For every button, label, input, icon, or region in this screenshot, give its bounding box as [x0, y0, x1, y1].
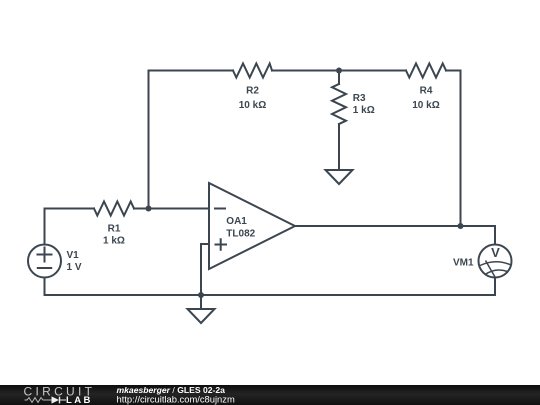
wire R3 top lead [338, 71, 340, 85]
svg-text:V: V [491, 245, 500, 260]
footer bar [0, 385, 540, 405]
voltmeter VM1 gauge [480, 261, 511, 278]
wire feedback vertical and top-left segment [149, 71, 234, 209]
op-amp OA1 [209, 183, 295, 269]
svg-text:VM1: VM1 [453, 258, 474, 269]
svg-text:LAB: LAB [66, 395, 93, 405]
svg-text:R1: R1 [108, 223, 121, 234]
svg-text:10 kΩ: 10 kΩ [239, 100, 266, 111]
wire R3 bottom lead to ground [338, 124, 340, 170]
node junction bottom rail / ground [198, 292, 204, 298]
wire output to voltmeter [295, 226, 495, 244]
node junction R2/R3/R4 [336, 68, 342, 74]
svg-text:http://circuitlab.com/c8ujnzm: http://circuitlab.com/c8ujnzm [117, 393, 235, 404]
svg-text:10 kΩ: 10 kΩ [412, 100, 439, 111]
ground under op-amp [188, 309, 215, 323]
wire R1 to op-amp inverting input [134, 208, 209, 210]
node junction R1/feedback [146, 206, 152, 212]
svg-text:TL082: TL082 [226, 229, 255, 240]
node junction output/R4 [458, 223, 464, 229]
svg-text:1 kΩ: 1 kΩ [103, 235, 125, 246]
resistor R4 [406, 64, 446, 78]
resistor R1 [94, 202, 134, 216]
resistor R3 [332, 84, 346, 124]
resistor R2 [233, 64, 272, 78]
wire top-right corner down to output node [446, 71, 461, 227]
wire op-amp non-inverting input lead [201, 244, 209, 295]
svg-text:R3: R3 [353, 93, 366, 104]
svg-text:1 V: 1 V [67, 262, 82, 273]
voltage source V1 [28, 245, 61, 278]
logo diode triangle [52, 396, 60, 403]
logo waveform [25, 397, 67, 404]
voltmeter VM1 [479, 245, 512, 278]
svg-text:R2: R2 [246, 86, 259, 97]
svg-text:OA1: OA1 [226, 216, 247, 227]
wire top middle R2 to R4 [272, 70, 406, 72]
wire V1 top lead [45, 209, 95, 244]
svg-text:R4: R4 [420, 86, 433, 97]
svg-text:1 kΩ: 1 kΩ [353, 105, 375, 116]
wire V1 bottom lead and bottom rail [45, 279, 496, 296]
svg-text:V1: V1 [67, 250, 80, 261]
ground under R3 [326, 170, 353, 184]
